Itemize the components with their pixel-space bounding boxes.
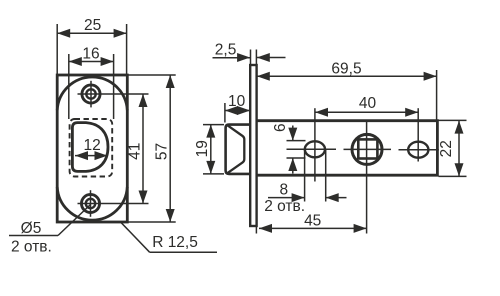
dim 41: dimension line with arrows <box>139 94 148 204</box>
mounting slot right (oval) <box>408 142 428 158</box>
dim 8: extension lines <box>305 150 326 202</box>
dim 22: dimension line with arrows <box>455 121 464 177</box>
spindle horizontal centreline <box>344 148 392 150</box>
svg-text:Ø5: Ø5 <box>21 220 42 237</box>
svg-text:12: 12 <box>83 137 100 154</box>
dim 16: extension lines <box>69 54 114 119</box>
dim 19: dimension line with arrows <box>206 125 215 174</box>
leader for hole dia: diagonal <box>58 205 91 236</box>
screw hole top: inner circle <box>86 89 95 98</box>
dim 57: extension lines <box>129 75 176 222</box>
leader for hole dia: shoulder <box>9 235 58 237</box>
svg-text:2 отв.: 2 отв. <box>11 239 52 256</box>
dim 12: double arrow <box>75 151 108 160</box>
dim 57: dimension line with arrows <box>166 75 175 222</box>
dim 25: dimension line with arrows <box>57 29 126 38</box>
svg-text:22: 22 <box>438 140 455 157</box>
dim 40: dimension line with arrows <box>315 108 418 117</box>
svg-text:6: 6 <box>272 123 289 132</box>
svg-text:2 отв.: 2 отв. <box>264 198 305 215</box>
spindle hole circle <box>352 134 382 164</box>
svg-text:R 12,5: R 12,5 <box>152 234 198 251</box>
dim 6: dimension line with outside arrows <box>288 126 297 174</box>
svg-text:2,5: 2,5 <box>215 42 237 59</box>
leader for R12.5: diagonal <box>121 223 150 253</box>
leader for R12.5: shoulder <box>150 251 217 253</box>
spindle square <box>358 139 377 158</box>
screw hole bottom: inner circle <box>86 199 95 208</box>
faceplate outer rectangle <box>57 75 127 222</box>
slot right horizontal centreline <box>399 149 439 151</box>
screw hole bottom: vertical centreline <box>90 190 92 217</box>
dim 10: dimension line with arrows <box>225 106 250 115</box>
dim 16: dimension line with arrows <box>69 57 114 66</box>
svg-text:45: 45 <box>304 212 321 229</box>
latch cutout hidden outline (dashed) <box>70 119 113 177</box>
screw hole top: vertical centreline <box>90 81 92 108</box>
dim 19: extension lines <box>203 125 224 174</box>
latch bolt bevel curve <box>227 125 244 173</box>
faceplate side (thin vertical plate) <box>250 65 256 226</box>
dim 2,5: right arrow <box>257 53 286 62</box>
svg-text:57: 57 <box>154 143 171 160</box>
screw hole top: outer circle <box>82 85 100 103</box>
dim 22: extension lines <box>439 120 467 176</box>
svg-text:25: 25 <box>84 17 101 34</box>
dim 69,5: right extension line <box>436 70 438 121</box>
faceplate top radius arc R12.5 <box>57 77 127 110</box>
faceplate bottom radius arc R12.5 <box>57 187 127 220</box>
slot right vertical centreline / 40-dim extension <box>417 108 419 161</box>
latch bolt side outline <box>226 125 250 174</box>
dim 10: extension line (bolt tip) <box>224 103 226 123</box>
svg-text:10: 10 <box>228 93 246 110</box>
dim 8: dimension line with outside arrows <box>268 193 347 202</box>
svg-text:19: 19 <box>194 140 211 157</box>
svg-text:8: 8 <box>279 182 288 199</box>
dim 69,5: dimension line with arrows <box>257 72 437 81</box>
slot left horizontal centreline <box>287 148 337 150</box>
screw hole bottom: horizontal centreline (extension to 41 dim) <box>78 203 149 205</box>
mounting slot left (oval) <box>305 141 325 157</box>
dim 45: dimension line with arrows <box>259 224 367 233</box>
dim 6: tick extension lines <box>287 141 306 158</box>
dim 2,5: left arrow <box>213 53 251 62</box>
dim 25: extension lines <box>57 24 126 74</box>
screw hole bottom: outer circle <box>81 194 99 212</box>
screw hole top: horizontal centreline (extension to 41 dim) <box>78 93 149 95</box>
svg-text:41: 41 <box>126 143 143 160</box>
slot left vertical centreline / 40-dim extension <box>314 108 316 181</box>
svg-text:69,5: 69,5 <box>331 61 361 78</box>
dim 2,5: extension lines above faceplate <box>251 50 257 67</box>
svg-text:40: 40 <box>359 95 377 112</box>
latch bolt front outline <box>72 123 108 172</box>
svg-text:16: 16 <box>82 45 99 62</box>
dim 45: faceplate extension <box>255 227 257 234</box>
spindle vertical centreline / 45-dim extension <box>366 122 368 234</box>
latch body (tube case) <box>257 121 438 176</box>
